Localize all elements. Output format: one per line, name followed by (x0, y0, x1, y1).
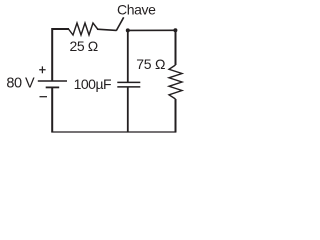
svg-text:80 V: 80 V (6, 76, 35, 92)
wire bottom rail (51, 131, 176, 133)
battery 80V short plate (-) (46, 86, 60, 88)
capacitor 100uF bottom plate (117, 86, 140, 88)
capacitor 100uF top plate (117, 81, 140, 83)
resistor 25 ohm zigzag (69, 23, 98, 35)
battery 80V long plate (+) (38, 80, 67, 82)
svg-text:75 Ω: 75 Ω (136, 56, 165, 72)
switch blade (Chave, open) (116, 17, 123, 30)
junction dot right (resistor branch) (173, 28, 177, 32)
svg-text:Chave: Chave (117, 2, 156, 18)
junction dot left (capacitor branch) (126, 28, 130, 32)
battery minus sign (40, 96, 48, 98)
wire right rail lower (175, 99, 177, 132)
wire capacitor branch lower (127, 87, 129, 132)
svg-text:25 Ω: 25 Ω (70, 38, 98, 54)
wire resistor to switch (97, 29, 117, 30)
wire left rail lower (51, 87, 53, 132)
wire top bus between junctions (128, 29, 176, 31)
wire right rail upper (175, 30, 177, 65)
resistor 75 ohm zigzag (169, 65, 182, 99)
battery plus sign (39, 66, 45, 73)
svg-text:100µF: 100µF (74, 76, 111, 92)
wire left rail top + top-left corner (52, 29, 69, 81)
wire capacitor branch upper (127, 30, 129, 82)
